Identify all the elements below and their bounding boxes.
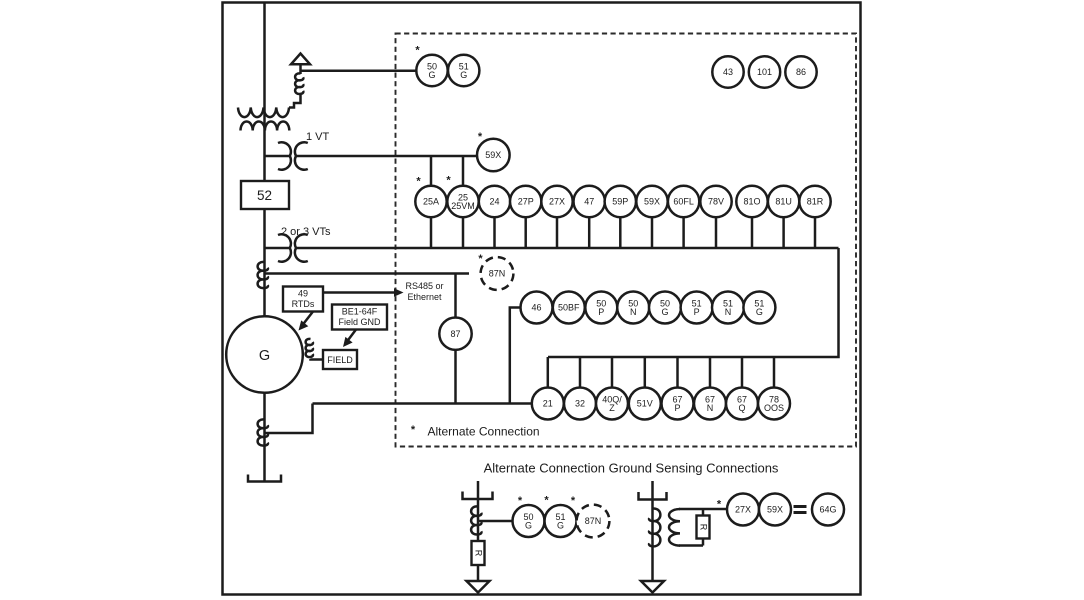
svg-text:Alternate Connection: Alternate Connection: [428, 425, 540, 439]
svg-text:87N: 87N: [585, 516, 602, 526]
breaker 52 box: [241, 181, 289, 209]
function circle 51V: [629, 388, 661, 420]
function circle 51G: [448, 55, 479, 86]
function circle 50G alt: [513, 505, 545, 537]
function circle 67N: [694, 388, 726, 420]
svg-text:67Q: 67Q: [737, 394, 747, 413]
function circle 78V: [700, 186, 731, 217]
function circle 81O: [736, 186, 767, 217]
wire stub 25A to VT1 line: [430, 156, 433, 186]
function circle 81R: [799, 186, 830, 217]
svg-text:R: R: [474, 550, 484, 557]
function circle 32: [564, 388, 596, 420]
resistor R left sub: [472, 541, 485, 565]
CT neutral-side current transformer coil: [258, 262, 268, 288]
CT generator-side coil: [258, 419, 268, 445]
wire right sub vertical: [651, 481, 654, 581]
svg-text:*: *: [571, 495, 576, 507]
svg-text:101: 101: [757, 67, 772, 77]
wire stub 60FL to bus: [682, 217, 685, 248]
VT right sub secondary coil: [669, 509, 680, 546]
svg-text:81U: 81U: [775, 197, 792, 207]
wire stub 59P to bus: [619, 217, 622, 248]
svg-text:43: 43: [723, 67, 733, 77]
svg-text:1 VT: 1 VT: [306, 131, 330, 143]
wire bus tap to VT2: [265, 247, 290, 250]
svg-text:*: *: [717, 499, 722, 511]
arrow 49 RTDs to generator: [303, 312, 314, 326]
ground bracket left sub: [463, 492, 493, 500]
svg-text:59P: 59P: [612, 197, 628, 207]
wire stub 27X to bus: [556, 217, 559, 248]
arrow to system (triangle): [291, 54, 310, 65]
wire right side drop: [548, 248, 839, 357]
svg-text:21: 21: [543, 399, 553, 409]
function circle 78OOS: [758, 388, 790, 420]
svg-text:47: 47: [584, 197, 594, 207]
svg-text:RS485 or: RS485 or: [405, 281, 443, 291]
function circle 27P: [510, 186, 541, 217]
svg-text:51V: 51V: [637, 399, 653, 409]
wire stub 81R to bus: [814, 217, 817, 248]
box FIELD: [323, 350, 357, 369]
wire arrow RTDs to RS485: [323, 291, 396, 294]
function circle 2525VM: [447, 186, 478, 217]
svg-text:51G: 51G: [754, 298, 764, 317]
wire stub 67Q to lower bus: [741, 357, 744, 388]
function circle 87N alt dashed: [577, 505, 610, 538]
wire field coil to FIELD box: [311, 358, 324, 361]
wire drop to 87: [454, 274, 457, 319]
svg-text:52: 52: [257, 188, 272, 203]
svg-text:*: *: [478, 253, 483, 265]
ground triangle right sub: [641, 581, 664, 593]
svg-text:*: *: [478, 131, 483, 143]
svg-text:60FL: 60FL: [673, 197, 694, 207]
wire left sub vertical: [477, 481, 480, 581]
CT ground-side current transformer coil: [295, 73, 303, 94]
VT1 secondary coil: [295, 142, 308, 169]
function circle 59X (VT1): [477, 139, 510, 172]
svg-text:Ethernet: Ethernet: [407, 292, 442, 302]
svg-text:32: 32: [575, 399, 585, 409]
function circle 67P: [662, 388, 694, 420]
svg-text:51G: 51G: [459, 61, 469, 80]
wire step from winding to CT: [289, 94, 301, 108]
svg-text:46: 46: [531, 303, 541, 313]
wire stub 81O to bus: [751, 217, 754, 248]
svg-text:Field GND: Field GND: [338, 317, 381, 327]
function circle 64G: [812, 494, 844, 526]
svg-text:*: *: [416, 176, 421, 188]
svg-text:27X: 27X: [735, 505, 751, 515]
svg-text:78V: 78V: [708, 197, 724, 207]
outer border frame: [223, 3, 861, 595]
wire main generator bus vertical: [263, 3, 266, 318]
wire neutral CT tap to 87N: [265, 272, 470, 275]
wire stub 32 to lower bus: [579, 357, 582, 388]
VT2 primary coil: [278, 234, 291, 261]
svg-text:50G: 50G: [523, 512, 533, 531]
wire generator CT tap: [265, 404, 313, 434]
svg-text:*: *: [518, 495, 523, 507]
svg-text:Alternate Connection Ground Se: Alternate Connection Ground Sensing Conn…: [484, 461, 779, 476]
function circle 21: [532, 388, 564, 420]
svg-text:64G: 64G: [819, 505, 836, 515]
function circle 27X alt: [727, 494, 759, 526]
function circle 87N dashed: [481, 257, 514, 290]
wire VT1 output to 59X: [297, 155, 478, 158]
function circle 50BF: [553, 292, 585, 324]
VT2 secondary coil: [295, 234, 308, 261]
function circle 59X: [636, 186, 667, 217]
function circle 43: [712, 56, 743, 87]
function circle 51G: [743, 292, 775, 324]
function circle 59P: [605, 186, 636, 217]
VT1 primary coil: [278, 142, 291, 169]
box 49 RTDs: [283, 287, 323, 312]
svg-text:87N: 87N: [489, 269, 506, 279]
ground triangle left sub: [467, 581, 490, 593]
ground bracket generator neutral: [248, 475, 281, 482]
svg-text:87: 87: [450, 329, 460, 339]
svg-text:59X: 59X: [644, 197, 660, 207]
svg-text:BE1-64F: BE1-64F: [342, 307, 378, 317]
svg-text:81O: 81O: [743, 197, 760, 207]
wire stub 67N to lower bus: [709, 357, 712, 388]
svg-text:24: 24: [489, 197, 499, 207]
svg-text:RTDs: RTDs: [292, 299, 315, 309]
function circle 50G: [649, 292, 681, 324]
wire secondary top to 27X: [679, 508, 727, 511]
svg-text:27X: 27X: [549, 197, 565, 207]
function circle 46: [521, 292, 553, 324]
wire stub 27P to bus: [524, 217, 527, 248]
function circle 51N: [712, 292, 744, 324]
wire stub 21 to lower bus: [547, 357, 550, 388]
function circle 25A: [415, 186, 446, 217]
wire 46 row link: [510, 308, 521, 404]
svg-text:*: *: [446, 175, 451, 187]
transformer GSU winding 1: [238, 108, 289, 118]
svg-text:50G: 50G: [660, 298, 670, 317]
function circle 60FL: [668, 186, 699, 217]
wire stub 2525VM to bus: [462, 217, 465, 248]
wire arrow stem: [299, 64, 302, 74]
wire stub 47 to bus: [588, 217, 591, 248]
function circle 50P: [585, 292, 617, 324]
function circle 50G: [416, 55, 447, 86]
wire 87 to generator line: [454, 350, 457, 404]
field winding coil: [306, 339, 313, 357]
wire stub 78OOS to lower bus: [773, 357, 776, 388]
wire stub 81U to bus: [782, 217, 785, 248]
function circle 51G alt: [545, 505, 577, 537]
wire stub 59X to bus: [651, 217, 654, 248]
ground bracket right sub: [639, 492, 667, 500]
svg-text:27P: 27P: [518, 197, 534, 207]
wire left sub tap: [478, 520, 513, 523]
svg-text:*: *: [411, 424, 416, 436]
function circle 101: [749, 56, 780, 87]
equals sign: [794, 507, 807, 513]
function circle 87: [439, 318, 471, 350]
wire stub 40QZ to lower bus: [611, 357, 614, 388]
function circle 51P: [681, 292, 713, 324]
function circle 50N: [617, 292, 649, 324]
wire stub 24 to bus: [493, 217, 496, 248]
CT left sub coil: [471, 506, 481, 534]
svg-text:59X: 59X: [767, 505, 783, 515]
wire to 50G/51G: [301, 70, 417, 73]
function circle 59X alt: [759, 494, 791, 526]
generator G: [226, 316, 303, 393]
wire VT2 output bus: [297, 247, 839, 250]
svg-text:51G: 51G: [555, 512, 565, 531]
wire generator CT line to 21: [313, 402, 532, 405]
resistor R right sub: [702, 509, 705, 546]
wire stub 67P to lower bus: [676, 357, 679, 388]
wire stub 78V to bus: [715, 217, 718, 248]
box BE1-64F Field GND: [332, 305, 387, 330]
svg-text:86: 86: [796, 67, 806, 77]
wire stub 25A to bus: [430, 217, 433, 248]
svg-text:50BF: 50BF: [558, 303, 580, 313]
function circle 86: [785, 56, 816, 87]
function circle 81U: [768, 186, 799, 217]
wire stub 25VM to VT1 line: [462, 156, 465, 186]
VT right sub primary coil: [649, 508, 660, 546]
wire bus tap to 1 VT: [265, 155, 290, 158]
transformer GSU winding 2: [241, 121, 290, 130]
function circle 67Q: [726, 388, 758, 420]
svg-text:*: *: [415, 45, 420, 57]
function circle 40QZ: [596, 388, 628, 420]
function circle 24: [479, 186, 510, 217]
svg-text:R: R: [699, 524, 709, 531]
svg-text:*: *: [544, 495, 549, 507]
svg-text:G: G: [259, 348, 270, 364]
svg-text:50G: 50G: [427, 61, 437, 80]
arrow BE1-64F to field coil: [347, 330, 356, 342]
function circle 47: [574, 186, 605, 217]
svg-text:49: 49: [298, 289, 308, 299]
svg-text:FIELD: FIELD: [327, 355, 353, 365]
wire generator neutral: [263, 393, 266, 482]
svg-text:81R: 81R: [807, 197, 824, 207]
wire secondary bottom: [679, 544, 703, 547]
svg-text:25A: 25A: [423, 197, 439, 207]
wire stub 51V to lower bus: [644, 357, 647, 388]
function circle 27X: [541, 186, 572, 217]
svg-text:59X: 59X: [485, 150, 501, 160]
dashed relay boundary box: [396, 34, 857, 447]
